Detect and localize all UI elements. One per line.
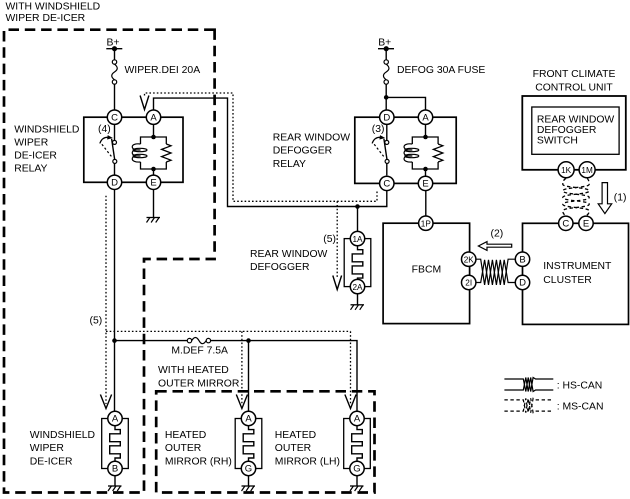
wire defogger relay C to wiper relay A: [154, 98, 387, 206]
svg-text:CLUSTER: CLUSTER: [543, 275, 592, 286]
dotted flow arrow into mirror RH: [236, 395, 247, 409]
cluster terminal B: [515, 252, 529, 266]
windshield wiper de-icer terminal B: [108, 461, 122, 475]
battery terminal B+ (right): [378, 38, 394, 52]
svg-text:WINDSHIELD: WINDSHIELD: [14, 124, 79, 135]
label FRONT CLIMATE CONTROL UNIT: [533, 69, 616, 93]
svg-text:D: D: [519, 278, 526, 289]
label REAR WINDOW DEFOGGER RELAY: [273, 133, 351, 170]
svg-text:WITH HEATED: WITH HEATED: [158, 365, 229, 376]
defogger relay coil/resistor resistor: [433, 144, 442, 162]
svg-text:DEFOGGER: DEFOGGER: [273, 146, 333, 157]
svg-text:INSTRUMENT: INSTRUMENT: [543, 261, 612, 272]
ground under rear window defogger 2A: [351, 294, 365, 310]
defogger relay terminal C: [380, 176, 394, 190]
FBCM terminal 2I: [462, 275, 476, 289]
svg-text:: MS-CAN: : MS-CAN: [557, 401, 604, 412]
defogger relay terminal D: [380, 110, 394, 124]
HS-CAN twisted pair wires: [476, 259, 515, 285]
label INSTRUMENT CLUSTER: [543, 261, 612, 286]
rear window defogger terminal 1A: [350, 231, 364, 245]
cluster terminal D: [515, 275, 529, 289]
svg-text:DE-ICER: DE-ICER: [30, 456, 73, 467]
svg-text:A: A: [112, 414, 119, 425]
defogger relay switch contact wires: [386, 124, 388, 175]
junction dot heated mirror RH: [246, 338, 251, 343]
svg-text:D: D: [383, 112, 390, 123]
svg-text:OUTER MIRROR: OUTER MIRROR: [158, 378, 240, 389]
wiper relay coil/resistor resistor: [162, 144, 171, 162]
dotted flow line defogger C to wiper relay A: [145, 93, 378, 201]
svg-text:DEFOGGER: DEFOGGER: [250, 262, 310, 273]
defogger relay coil branch wires: [425, 124, 427, 176]
svg-text:RELAY: RELAY: [273, 159, 306, 170]
rear window defogger box: [344, 239, 371, 287]
svg-text:B: B: [519, 254, 525, 265]
wire fuse to relay terminal C: [114, 84, 116, 110]
svg-text:1P: 1P: [421, 219, 432, 228]
dashed boundary box - with heated outer mirror: [156, 391, 374, 492]
heated outer mirror LH box: [344, 419, 371, 469]
label WINDSHIELD WIPER DE-ICER: [30, 430, 95, 467]
svg-text:A: A: [150, 112, 157, 123]
wiper de-icer relay switch blade: [102, 139, 115, 160]
FBCM box: [383, 223, 470, 323]
cluster terminal E: [579, 216, 593, 230]
dotted flow line from wiper relay D to elements: [106, 196, 351, 404]
windshield wiper de-icer relay box: [84, 117, 183, 182]
svg-text:WINDSHIELD: WINDSHIELD: [30, 430, 95, 441]
svg-text:C: C: [383, 179, 390, 190]
svg-text:A: A: [422, 112, 429, 123]
svg-text:SWITCH: SWITCH: [537, 136, 578, 147]
wiper relay coil/resistor junction dots: [151, 135, 156, 172]
MS-CAN twisted pair wires: [563, 178, 589, 215]
svg-text:(3): (3): [372, 124, 385, 135]
dotted flow arrow into rear window defogger: [333, 276, 342, 290]
defogger relay terminal E: [418, 176, 432, 190]
ground under mirror LH G: [350, 476, 364, 491]
svg-text:OUTER: OUTER: [165, 443, 202, 454]
heated outer mirror LH terminal G: [350, 461, 364, 475]
wiper relay terminal C: [107, 110, 121, 124]
svg-text:HEATED: HEATED: [165, 430, 206, 441]
windshield wiper de-icer box: [102, 419, 129, 469]
svg-text:DE-ICER: DE-ICER: [14, 151, 57, 162]
svg-text:2A: 2A: [352, 283, 363, 292]
wiper relay terminal D: [107, 175, 121, 189]
dashed boundary box - with windshield wiper de-icer: [4, 30, 215, 493]
heated outer mirror RH heating element: [243, 426, 254, 462]
ground under wiper relay E: [147, 190, 161, 223]
wire fuse to relay terminal D with branch to A: [384, 84, 426, 110]
svg-text:FBCM: FBCM: [412, 265, 441, 276]
svg-text:(2): (2): [491, 229, 504, 240]
svg-text:(4): (4): [98, 124, 111, 135]
svg-text:2K: 2K: [464, 255, 475, 264]
flow arrow (1): [598, 183, 612, 214]
svg-text:G: G: [353, 464, 360, 475]
junction dot to rear window defogger: [355, 204, 360, 209]
defogger relay coil/resistor frame: [412, 137, 438, 169]
ground under wiper de-icer B: [108, 476, 122, 491]
windshield wiper de-icer heating element: [110, 426, 121, 462]
svg-text:WIPER: WIPER: [14, 138, 49, 149]
instrument cluster box: [523, 223, 629, 324]
fuse WIPER.DEI 20A: [112, 60, 118, 84]
wiper relay coil branch wires: [153, 124, 155, 175]
M.DEF feed wire with corners: [115, 340, 188, 342]
svg-text:REAR WINDOW: REAR WINDOW: [273, 133, 351, 144]
heated outer mirror RH terminal A: [241, 411, 255, 425]
defogger relay switch blade: [374, 139, 387, 160]
svg-text:A: A: [354, 414, 361, 425]
cluster terminal C: [559, 216, 573, 230]
svg-text:D: D: [111, 178, 118, 189]
svg-text:A: A: [245, 414, 252, 425]
svg-text:: HS-CAN: : HS-CAN: [557, 380, 603, 391]
rear window defogger terminal 2A: [350, 279, 364, 293]
svg-text:FRONT CLIMATE: FRONT CLIMATE: [533, 69, 616, 80]
svg-text:DEFOGGER: DEFOGGER: [537, 125, 597, 136]
wiper de-icer relay switch motion arrow: [100, 135, 113, 143]
climate unit terminal 1K: [558, 162, 574, 178]
windshield wiper de-icer terminal A: [108, 411, 122, 425]
climate unit terminal 1M: [579, 162, 595, 178]
ground under mirror RH G: [242, 476, 256, 491]
svg-text:E: E: [583, 219, 589, 230]
svg-text:(5): (5): [90, 316, 103, 327]
svg-text:1K: 1K: [561, 166, 572, 175]
heated outer mirror LH heating element: [352, 426, 363, 462]
wiper relay coil/resistor coil: [132, 144, 147, 162]
svg-text:C: C: [111, 112, 118, 123]
rear window defogger switch box: [532, 107, 619, 154]
label WINDSHIELD WIPER DE-ICER RELAY: [14, 124, 79, 174]
defogger relay switch contacts: [385, 140, 389, 163]
svg-text:G: G: [245, 464, 252, 475]
svg-text:E: E: [150, 178, 156, 189]
label REAR WINDOW DEFOGGER SWITCH: [537, 115, 615, 147]
svg-text:WITH WINDSHIELD: WITH WINDSHIELD: [6, 2, 101, 13]
dotted flow arrow into wiper de-icer: [100, 395, 111, 409]
fuse M.DEF 7.5A: [187, 338, 210, 344]
dotted flow arrow into mirror LH: [345, 395, 356, 409]
wire to heated mirror RH: [248, 341, 250, 412]
FBCM terminal 2K: [462, 252, 476, 266]
svg-text:CONTROL UNIT: CONTROL UNIT: [535, 82, 613, 93]
svg-text:1M: 1M: [581, 166, 593, 175]
heated outer mirror RH terminal G: [241, 461, 255, 475]
svg-text:WIPER DE-ICER: WIPER DE-ICER: [6, 13, 86, 24]
svg-text:REAR WINDOW: REAR WINDOW: [250, 249, 328, 260]
label WITH WINDSHIELD WIPER DE-ICER: [6, 2, 101, 25]
svg-text:2I: 2I: [465, 279, 472, 288]
dotted flow arrow into wiper relay A: [140, 96, 149, 110]
defogger relay coil/resistor junction dots: [423, 135, 428, 172]
svg-text:MIRROR (RH): MIRROR (RH): [165, 456, 232, 467]
FBCM terminal 1P: [419, 216, 433, 230]
rear window defogger relay box: [355, 117, 456, 183]
svg-text:E: E: [422, 179, 428, 190]
wire defogger relay E to FBCM 1P: [425, 191, 427, 216]
label REAR WINDOW DEFOGGER: [250, 249, 328, 273]
defogger relay switch motion arrow: [372, 135, 385, 143]
wiper relay coil/resistor frame: [141, 137, 167, 169]
rear window defogger heating element: [352, 246, 363, 280]
junction dot M.DEF branch: [112, 338, 117, 343]
wire wiper relay D down to de-icer element: [114, 190, 116, 412]
battery terminal B+ (left): [106, 38, 122, 52]
wiper relay terminal E: [146, 175, 160, 189]
wire B+ to fuse WIPER.DEI: [114, 49, 116, 60]
label HEATED OUTER MIRROR (LH): [275, 430, 340, 467]
svg-text:DEFOG 30A FUSE: DEFOG 30A FUSE: [397, 65, 485, 76]
svg-text:(1): (1): [614, 193, 627, 204]
dotted flow branch to rear window defogger: [336, 201, 338, 277]
flow arrow (2): [478, 242, 511, 251]
svg-text:REAR WINDOW: REAR WINDOW: [537, 115, 615, 126]
svg-text:M.DEF 7.5A: M.DEF 7.5A: [171, 346, 228, 357]
svg-text:(5): (5): [323, 234, 336, 245]
svg-text:WIPER.DEI 20A: WIPER.DEI 20A: [125, 65, 201, 76]
defogger relay terminal A: [418, 110, 432, 124]
front climate control unit box: [522, 96, 626, 170]
svg-text:B: B: [112, 464, 118, 475]
heated outer mirror RH box: [235, 419, 262, 469]
legend HS-CAN symbol: [504, 378, 553, 392]
legend MS-CAN symbol: [504, 398, 553, 412]
fuse DEFOG 30A: [383, 60, 389, 84]
svg-text:C: C: [562, 219, 569, 230]
wiper de-icer relay switch contacts: [113, 140, 117, 163]
heated outer mirror LH terminal A: [350, 411, 364, 425]
wiper relay terminal A: [146, 110, 160, 124]
defogger relay coil/resistor coil: [404, 144, 419, 162]
wiper de-icer relay switch contact wires: [114, 124, 116, 175]
wire B+ to fuse DEFOG: [385, 49, 387, 60]
label HEATED OUTER MIRROR (RH): [165, 430, 232, 467]
wire junction to defogger element 1A: [357, 207, 359, 232]
label WITH HEATED OUTER MIRROR: [158, 365, 240, 389]
svg-text:OUTER: OUTER: [275, 443, 312, 454]
svg-text:RELAY: RELAY: [14, 164, 47, 175]
svg-text:WIPER: WIPER: [30, 443, 65, 454]
svg-text:HEATED: HEATED: [275, 430, 316, 441]
svg-text:1A: 1A: [352, 235, 363, 244]
svg-text:MIRROR (LH): MIRROR (LH): [275, 456, 340, 467]
